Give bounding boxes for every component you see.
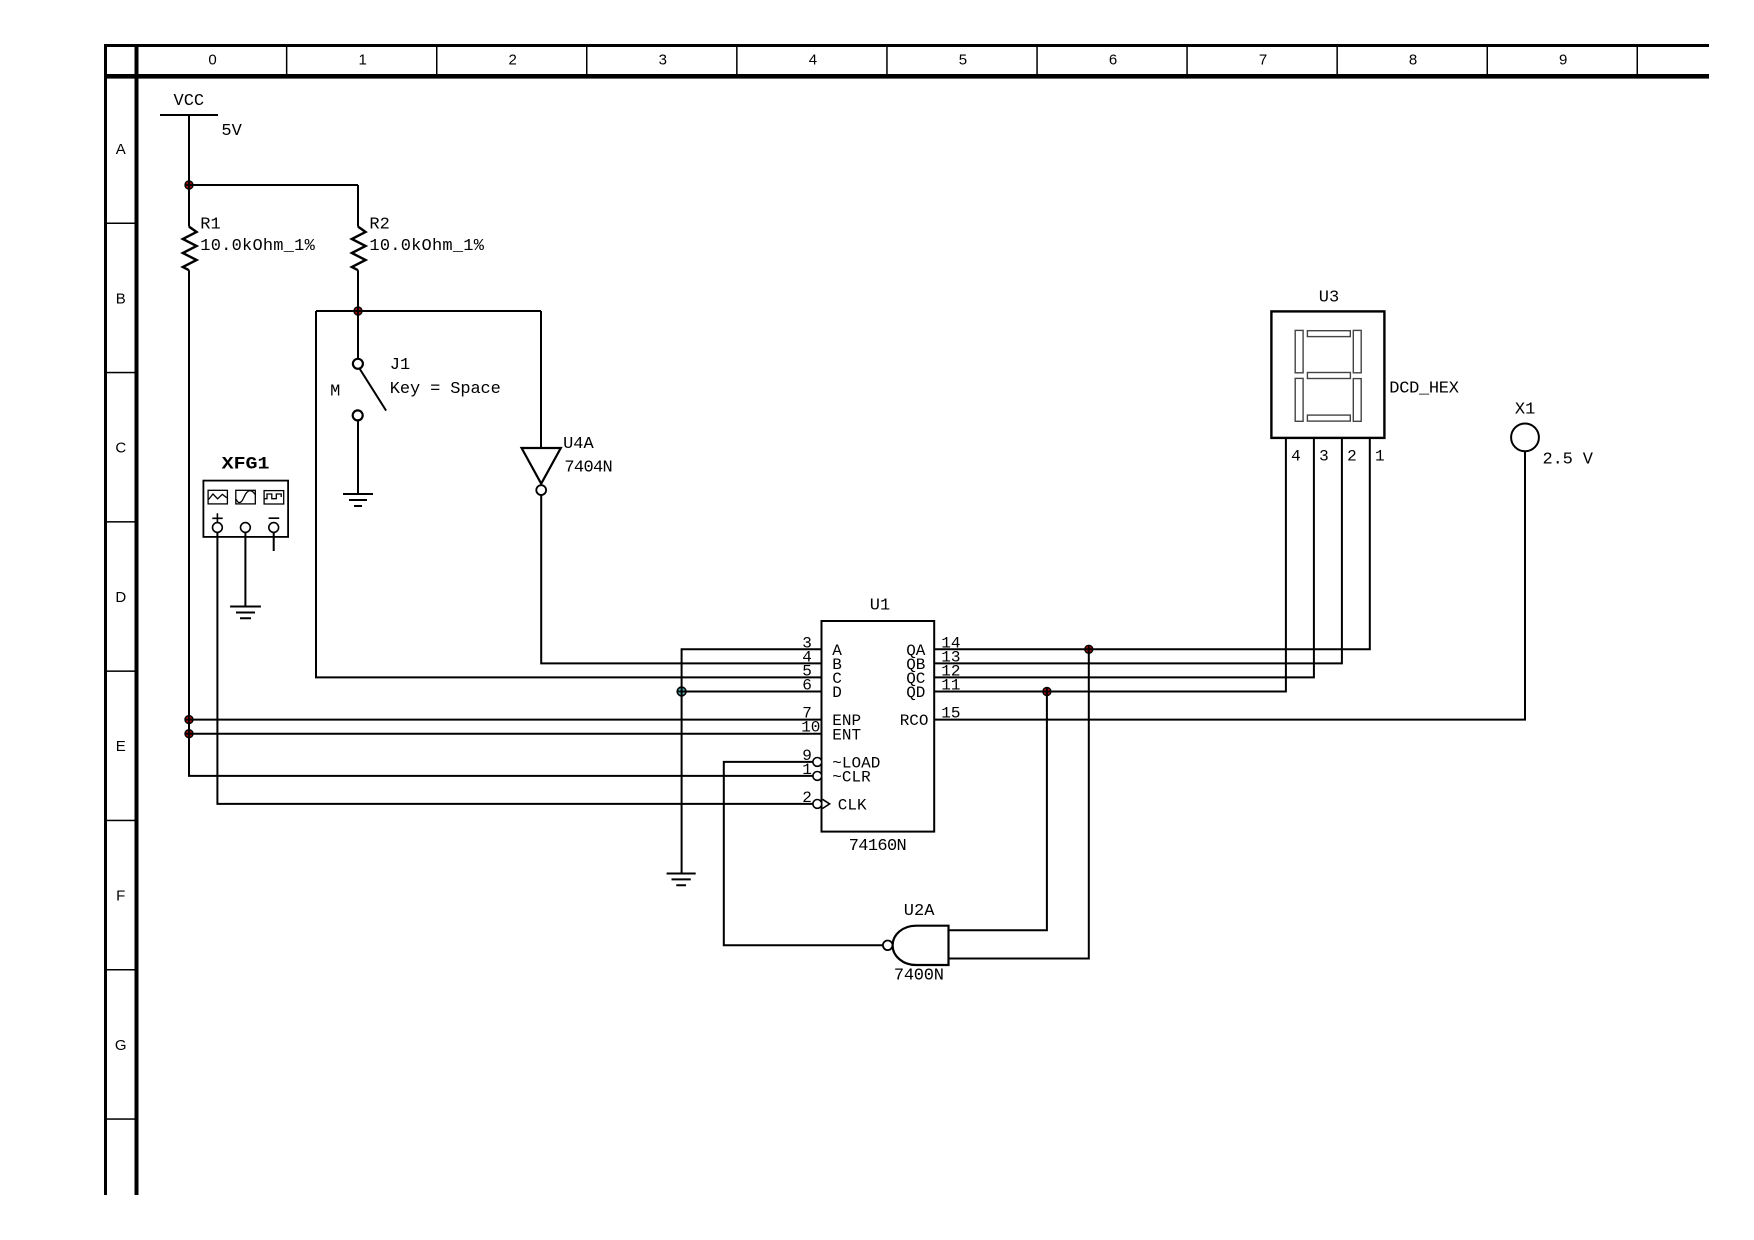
svg-text:9: 9 — [1559, 52, 1567, 69]
svg-text:10.0kOhm_1%: 10.0kOhm_1% — [369, 237, 484, 256]
svg-text:1: 1 — [359, 52, 367, 69]
svg-text:R2: R2 — [369, 215, 389, 234]
svg-text:D: D — [832, 684, 842, 702]
svg-text:U4A: U4A — [563, 435, 594, 454]
svg-text:5V: 5V — [221, 122, 242, 141]
svg-text:U3: U3 — [1319, 288, 1339, 307]
svg-text:3: 3 — [1319, 448, 1329, 466]
svg-text:B: B — [116, 290, 126, 307]
svg-text:A: A — [116, 141, 126, 158]
svg-text:7404N: 7404N — [564, 458, 612, 477]
svg-text:C: C — [115, 440, 126, 457]
svg-text:DCD_HEX: DCD_HEX — [1389, 379, 1459, 398]
svg-text:7400N: 7400N — [894, 967, 944, 986]
svg-text:11: 11 — [941, 677, 960, 695]
svg-text:15: 15 — [941, 705, 960, 723]
svg-text:10.0kOhm_1%: 10.0kOhm_1% — [200, 237, 315, 256]
svg-text:5: 5 — [959, 52, 967, 69]
svg-text:M: M — [330, 382, 340, 401]
svg-text:6: 6 — [1109, 52, 1117, 69]
svg-text:10: 10 — [801, 719, 820, 737]
svg-text:0: 0 — [208, 52, 216, 69]
svg-text:~CLR: ~CLR — [832, 769, 871, 787]
svg-text:E: E — [116, 738, 126, 755]
svg-text:2: 2 — [1347, 448, 1357, 466]
svg-text:6: 6 — [802, 677, 812, 695]
svg-text:D: D — [115, 589, 126, 606]
svg-text:U1: U1 — [870, 596, 890, 615]
svg-text:J1: J1 — [390, 356, 410, 375]
svg-text:4: 4 — [809, 52, 817, 69]
svg-text:XFG1: XFG1 — [222, 455, 270, 475]
svg-text:G: G — [115, 1037, 127, 1054]
svg-text:VCC: VCC — [174, 92, 205, 111]
svg-text:2: 2 — [802, 789, 812, 807]
svg-text:Key = Space: Key = Space — [390, 380, 501, 399]
svg-text:8: 8 — [1409, 52, 1417, 69]
svg-text:X1: X1 — [1515, 401, 1535, 420]
svg-text:ENT: ENT — [832, 726, 861, 744]
svg-text:2: 2 — [509, 52, 517, 69]
svg-text:U2A: U2A — [904, 902, 935, 921]
svg-text:2.5 V: 2.5 V — [1543, 450, 1594, 469]
svg-text:QD: QD — [906, 684, 925, 702]
svg-text:F: F — [116, 888, 125, 905]
svg-text:3: 3 — [659, 52, 667, 69]
svg-text:4: 4 — [1291, 448, 1301, 466]
svg-text:74160N: 74160N — [849, 837, 907, 856]
svg-text:1: 1 — [802, 761, 812, 779]
svg-text:CLK: CLK — [838, 797, 867, 815]
svg-text:7: 7 — [1259, 52, 1267, 69]
svg-text:R1: R1 — [200, 215, 220, 234]
svg-text:1: 1 — [1375, 448, 1385, 466]
svg-text:RCO: RCO — [900, 712, 929, 730]
